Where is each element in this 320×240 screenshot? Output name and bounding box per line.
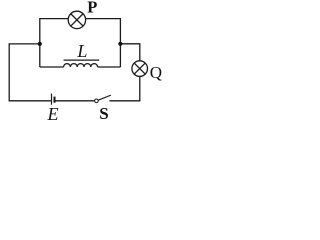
- battery E long plate: [51, 94, 53, 105]
- lamp P: [68, 11, 85, 28]
- wire outer left vertical: [8, 43, 10, 101]
- wire inner left vertical: [39, 18, 41, 67]
- wire Q branch upper vertical: [139, 44, 141, 61]
- wire between switch and battery: [55, 100, 94, 102]
- wire left connector: [9, 43, 40, 45]
- wire Q branch lower vertical: [139, 76, 141, 100]
- wire top branch right: [86, 18, 122, 20]
- svg-text:P: P: [87, 0, 97, 16]
- wire inductor branch right: [98, 66, 121, 68]
- svg-text:Q: Q: [150, 63, 162, 82]
- switch S lever: [98, 95, 111, 100]
- svg-text:E: E: [47, 104, 59, 124]
- node left junction dot: [38, 42, 42, 46]
- wire battery to left corner: [9, 100, 51, 102]
- svg-text:S: S: [99, 104, 108, 123]
- node right junction dot: [118, 42, 122, 46]
- wire top branch left: [40, 18, 69, 20]
- inductor core bar: [64, 59, 100, 61]
- switch S pivot circle: [95, 99, 99, 103]
- inductor L coil: [64, 64, 98, 67]
- svg-text:L: L: [76, 41, 87, 61]
- lamp Q: [132, 61, 148, 77]
- wire inductor branch left: [40, 66, 64, 68]
- wire right connector to Q: [120, 43, 140, 45]
- wire inner right vertical: [119, 18, 121, 67]
- battery E short thick plate: [53, 97, 55, 103]
- wire bottom right segment: [109, 100, 140, 102]
